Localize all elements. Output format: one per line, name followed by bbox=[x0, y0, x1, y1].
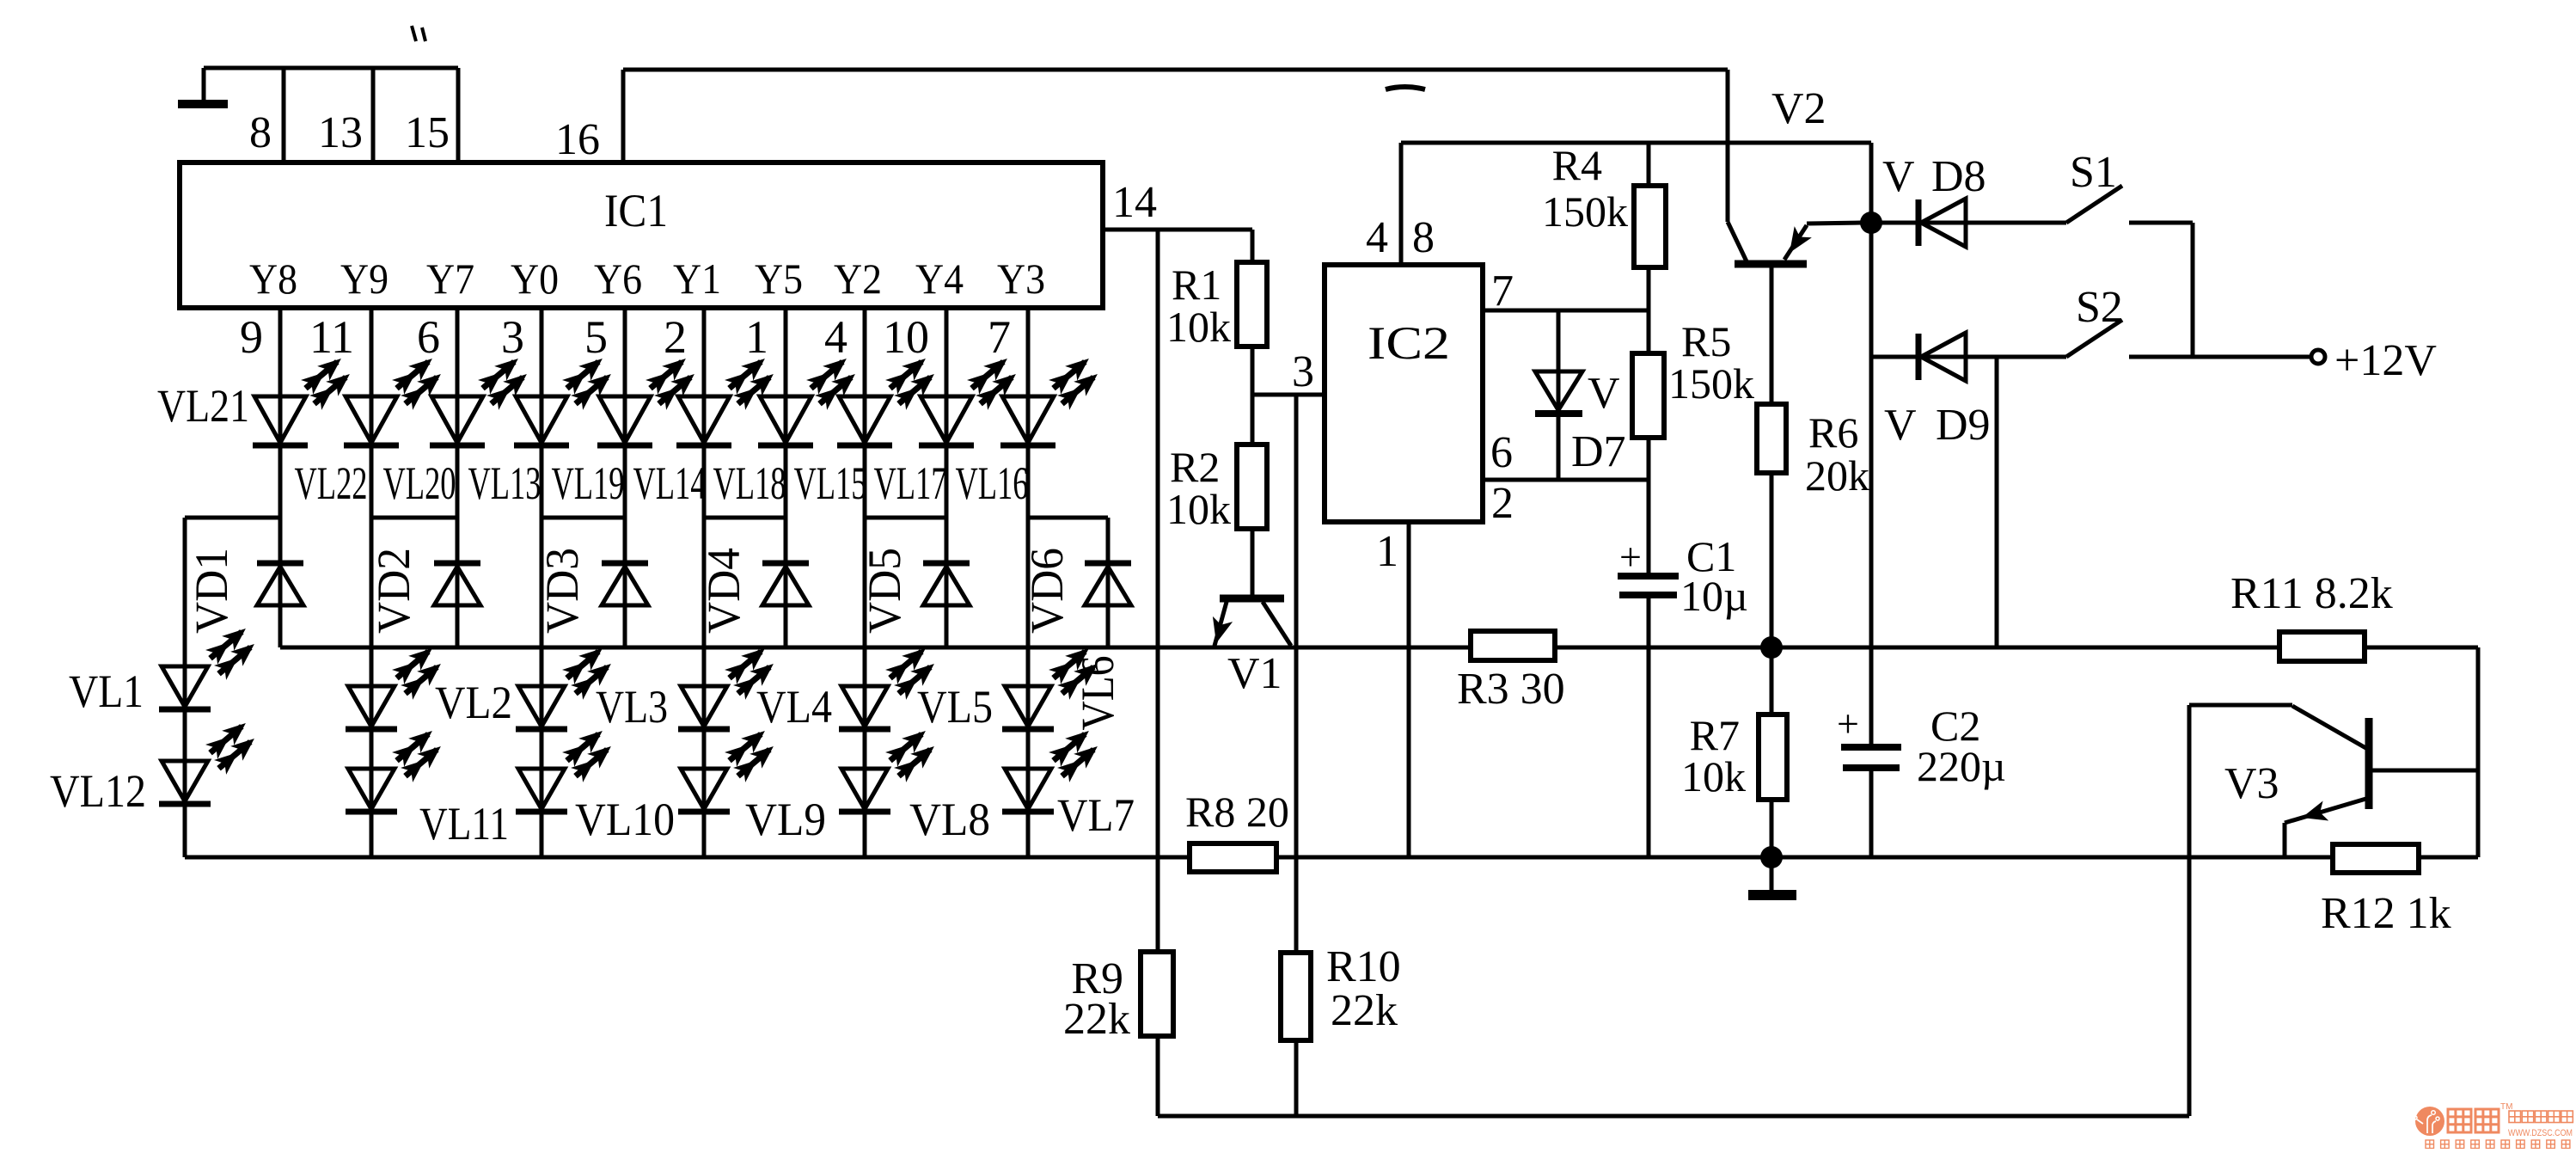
svg-text:VL16: VL16 bbox=[956, 457, 1029, 509]
svg-text:V: V bbox=[1882, 152, 1915, 201]
LED VL16 bbox=[1000, 352, 1104, 445]
ground (R7) bbox=[1748, 857, 1796, 895]
svg-text:10: 10 bbox=[883, 311, 929, 363]
IC1 pin 11 label bbox=[309, 311, 354, 363]
svg-text:10k: 10k bbox=[1166, 485, 1231, 533]
IC1 pin 10 label bbox=[883, 311, 929, 363]
svg-text:VL20: VL20 bbox=[383, 457, 456, 509]
svg-text:VL8: VL8 bbox=[909, 794, 990, 845]
wire pin3 bbox=[1252, 393, 1325, 397]
diode VD7 bbox=[1535, 371, 1582, 414]
LED VL17 bbox=[919, 352, 1022, 445]
resistor R6 bbox=[1757, 404, 1869, 500]
IC1 output label Y2 bbox=[834, 255, 882, 303]
node V2 emitter junction bbox=[1860, 212, 1882, 234]
switch S1 bbox=[2066, 148, 2122, 223]
wire pin3 to R10 bbox=[1294, 395, 1299, 1116]
LED VL19 bbox=[597, 352, 701, 445]
wire pin14 to R9 bbox=[1156, 230, 1160, 1042]
svg-text:3: 3 bbox=[501, 311, 524, 363]
node 3 label bbox=[1292, 347, 1314, 396]
svg-text:D8: D8 bbox=[1931, 152, 1986, 201]
svg-text:7: 7 bbox=[1491, 267, 1514, 316]
IC2 pin 8 label bbox=[1412, 213, 1435, 262]
svg-text:R12 1k: R12 1k bbox=[2321, 889, 2451, 938]
LED VL12 bbox=[159, 716, 260, 804]
LED VL3 bbox=[516, 641, 617, 729]
node R6 bus junction bbox=[1760, 636, 1783, 659]
wire VD4 box top bbox=[704, 516, 786, 520]
wire bottom net R9 R10 V3 bbox=[1158, 1042, 2189, 1116]
svg-text:15: 15 bbox=[405, 108, 450, 157]
wire pin 15 divider bbox=[371, 68, 376, 163]
IC1 output label Y9 bbox=[340, 255, 389, 303]
svg-text:7: 7 bbox=[988, 311, 1011, 363]
IC1 pin 1 label bbox=[745, 311, 768, 363]
svg-text:VL4: VL4 bbox=[756, 681, 832, 733]
svg-text:R8 20: R8 20 bbox=[1185, 788, 1289, 836]
svg-text:4: 4 bbox=[824, 311, 847, 363]
LED VL13 bbox=[514, 352, 617, 445]
IC2 pin 1 label bbox=[1376, 527, 1398, 576]
svg-text:Y2: Y2 bbox=[834, 255, 882, 303]
IC1 pin 3 label bbox=[501, 311, 524, 363]
LED VL14 label bbox=[633, 457, 707, 509]
svg-text:6: 6 bbox=[417, 311, 440, 363]
wire pin 13 divider bbox=[282, 68, 286, 163]
svg-text:R4: R4 bbox=[1552, 141, 1602, 189]
svg-text:Y7: Y7 bbox=[426, 255, 474, 303]
LED VL2 bbox=[346, 641, 447, 729]
LED VL4 label bbox=[756, 681, 832, 733]
svg-text:VL18: VL18 bbox=[713, 457, 786, 509]
svg-text:22k: 22k bbox=[1331, 986, 1398, 1035]
wire supply bus bbox=[280, 646, 2478, 650]
IC2 bbox=[1325, 265, 1483, 522]
diode VD5 bbox=[923, 563, 970, 605]
svg-text:13: 13 bbox=[318, 108, 363, 157]
VD6 label bbox=[1021, 548, 1073, 634]
svg-text:20k: 20k bbox=[1805, 451, 1869, 500]
wire IC1 pin 14 bbox=[1103, 228, 1252, 232]
IC1 output label Y8 bbox=[249, 255, 297, 303]
IC1 output label Y6 bbox=[594, 255, 642, 303]
diode VD9 bbox=[1918, 333, 1966, 381]
svg-text:1: 1 bbox=[745, 311, 768, 363]
wire V3 emitter to rail bbox=[2283, 823, 2287, 857]
svg-text:+12V: +12V bbox=[2334, 336, 2437, 385]
IC1 pin 7 label bbox=[988, 311, 1011, 363]
VD8 label bbox=[1882, 152, 1986, 201]
svg-text:D9: D9 bbox=[1936, 401, 1991, 450]
svg-text:R6: R6 bbox=[1808, 408, 1858, 457]
wire IC2 pin 7 bbox=[1483, 309, 1649, 313]
+12V terminal bbox=[2311, 336, 2437, 385]
wire IC2 pin1 bbox=[1407, 522, 1411, 857]
wire IC1 column 7 bbox=[784, 308, 788, 647]
LED VL11 bbox=[346, 724, 447, 812]
svg-text:R11 8.2k: R11 8.2k bbox=[2230, 569, 2393, 618]
pin 15 label bbox=[405, 108, 450, 157]
svg-text:9: 9 bbox=[240, 311, 263, 363]
svg-text:IC1: IC1 bbox=[604, 185, 668, 236]
VD1 label bbox=[186, 548, 237, 634]
LED VL15 label bbox=[794, 457, 867, 509]
svg-text:+: + bbox=[1619, 535, 1642, 579]
watermark title bbox=[2448, 1102, 2573, 1138]
wire VD2 box top bbox=[371, 516, 457, 520]
svg-text:Y1: Y1 bbox=[673, 255, 721, 303]
VD5 label bbox=[859, 548, 910, 634]
wire V3 collector bbox=[2189, 705, 2292, 1116]
IC1 output label Y4 bbox=[915, 255, 964, 303]
svg-text:2: 2 bbox=[1491, 479, 1514, 528]
resistor R5 bbox=[1632, 317, 1754, 438]
svg-text:Y4: Y4 bbox=[915, 255, 964, 303]
LED VL7 label bbox=[1057, 789, 1135, 841]
LED VL15 bbox=[837, 352, 940, 445]
svg-text:VL14: VL14 bbox=[633, 457, 707, 509]
resistor R4 bbox=[1542, 141, 1666, 267]
LED VL22 label bbox=[295, 457, 368, 509]
LED VL6 label bbox=[1072, 656, 1123, 731]
svg-text:5: 5 bbox=[584, 311, 608, 363]
diode VD8 bbox=[1918, 199, 1966, 247]
svg-text:R10: R10 bbox=[1326, 942, 1401, 991]
wire R1 R2 string bbox=[1251, 230, 1255, 598]
IC2 pin 2 label bbox=[1491, 479, 1514, 528]
LED VL16 label bbox=[956, 457, 1029, 509]
pin 16 label bbox=[555, 115, 600, 164]
svg-text:150k: 150k bbox=[1542, 187, 1628, 236]
wire IC2 pins 6 2 bbox=[1483, 478, 1649, 482]
wire IC1 column 5 bbox=[623, 308, 627, 647]
wire IC1 column 1 bbox=[278, 308, 283, 647]
svg-text:VL6: VL6 bbox=[1072, 656, 1123, 731]
svg-text:VD5: VD5 bbox=[859, 548, 910, 634]
LED VL8 label bbox=[909, 794, 990, 845]
svg-text:VL5: VL5 bbox=[917, 681, 993, 733]
LED VL18 bbox=[758, 352, 861, 445]
resistor R8 bbox=[1185, 788, 1289, 872]
LED VL7 bbox=[1002, 724, 1104, 812]
VD7 label bbox=[1571, 369, 1626, 476]
LED VL1 bbox=[159, 622, 260, 709]
LED VL4 bbox=[678, 641, 780, 729]
IC1 pin 14 label bbox=[1112, 178, 1157, 227]
LED VL5 label bbox=[917, 681, 993, 733]
svg-text:WWW.DZSC.COM: WWW.DZSC.COM bbox=[2508, 1128, 2573, 1138]
svg-text:VL19: VL19 bbox=[552, 457, 625, 509]
svg-text:6: 6 bbox=[1490, 428, 1513, 477]
LED VL8 bbox=[839, 724, 940, 812]
svg-text:R5: R5 bbox=[1681, 317, 1731, 365]
svg-text:14: 14 bbox=[1112, 178, 1157, 227]
wire VD1 box top bbox=[185, 516, 280, 520]
svg-text:Y9: Y9 bbox=[340, 255, 389, 303]
watermark slogan bbox=[2426, 1140, 2570, 1149]
wire ground rail bbox=[185, 856, 2478, 860]
wire IC2 pins 4 8 bbox=[1401, 143, 1871, 265]
wire pin header right bbox=[456, 68, 461, 163]
IC1 pin 9 label bbox=[240, 311, 263, 363]
wire D8 line bbox=[1871, 221, 2066, 225]
LED VL13 label bbox=[468, 457, 542, 509]
diode VD1 bbox=[257, 563, 303, 605]
svg-text:R1: R1 bbox=[1172, 261, 1221, 309]
IC1 output label Y5 bbox=[755, 255, 803, 303]
wire S2 to +12V terminal bbox=[2129, 355, 2311, 359]
svg-text:2: 2 bbox=[664, 311, 687, 363]
ground (IC1 pin 8) bbox=[178, 68, 228, 104]
svg-text:8: 8 bbox=[1412, 213, 1435, 262]
IC1 pin 5 label bbox=[584, 311, 608, 363]
svg-text:Y6: Y6 bbox=[594, 255, 642, 303]
svg-text:IC2: IC2 bbox=[1368, 317, 1450, 369]
svg-text:VD3: VD3 bbox=[536, 548, 588, 634]
IC1 output label Y1 bbox=[673, 255, 721, 303]
svg-text:1: 1 bbox=[1376, 527, 1398, 576]
wire V2 base to R6 bbox=[1770, 267, 1774, 404]
wire IC1 column 6 bbox=[702, 308, 707, 857]
wire pin 16 to V2 collector bbox=[623, 70, 1728, 222]
svg-text:VL2: VL2 bbox=[435, 677, 512, 728]
svg-text:220µ: 220µ bbox=[1917, 742, 2006, 790]
svg-text:4: 4 bbox=[1366, 213, 1388, 262]
svg-text:VL11: VL11 bbox=[419, 798, 509, 849]
LED VL2 label bbox=[435, 677, 512, 728]
LED VL14 bbox=[676, 352, 780, 445]
VD3 label bbox=[536, 548, 588, 634]
LED VL3 label bbox=[596, 681, 668, 733]
wire IC1 column 8 bbox=[863, 308, 867, 857]
wire R11 to V3 base bbox=[2476, 647, 2481, 857]
capacitor C1 bbox=[1618, 532, 1748, 620]
IC1 pin 4 label bbox=[824, 311, 847, 363]
resistor R7 bbox=[1681, 647, 1787, 857]
svg-text:Y0: Y0 bbox=[511, 255, 559, 303]
svg-text:Y3: Y3 bbox=[997, 255, 1045, 303]
wire S1 to +12V corner bbox=[2129, 223, 2193, 357]
wire IC1 column 2 bbox=[370, 308, 374, 857]
VD4 label bbox=[698, 548, 750, 634]
wire R6 to bus bbox=[1770, 473, 1774, 647]
wire supply feed to bus bbox=[1995, 357, 1999, 647]
svg-text:VD6: VD6 bbox=[1021, 548, 1073, 634]
svg-text:VL3: VL3 bbox=[596, 681, 668, 733]
wire V2 emitter node vertical bbox=[1869, 143, 1874, 223]
svg-text:VD2: VD2 bbox=[368, 548, 419, 634]
VD9 label bbox=[1884, 401, 1991, 450]
svg-text:S1: S1 bbox=[2070, 148, 2117, 197]
IC1 bbox=[180, 163, 1103, 308]
IC1 pin 6 label bbox=[417, 311, 440, 363]
svg-text:3: 3 bbox=[1292, 347, 1314, 396]
switch S2 bbox=[2066, 283, 2123, 357]
svg-text:VL22: VL22 bbox=[295, 457, 368, 509]
LED VL12 label bbox=[50, 765, 146, 817]
IC2 pin 7 label bbox=[1491, 267, 1514, 316]
wire VD1 left stub bbox=[183, 518, 187, 857]
svg-text:VL10: VL10 bbox=[575, 794, 675, 845]
VD2 label bbox=[368, 548, 419, 634]
wire VD7 bbox=[1557, 310, 1561, 480]
LED VL19 label bbox=[552, 457, 625, 509]
IC2 pin 6 label bbox=[1490, 428, 1513, 477]
svg-text:150k: 150k bbox=[1668, 359, 1754, 408]
wire R4 R5 C1 string bbox=[1647, 143, 1651, 857]
LED VL21 label bbox=[157, 380, 249, 432]
resistor R9 bbox=[1063, 952, 1173, 1044]
svg-text:R3 30: R3 30 bbox=[1457, 665, 1565, 714]
LED VL21 bbox=[253, 352, 356, 445]
wire IC1 column 4 bbox=[540, 308, 544, 857]
transistor V1 bbox=[1206, 598, 1291, 698]
LED VL17 label bbox=[874, 457, 947, 509]
diode VD3 bbox=[602, 563, 648, 605]
svg-text:VL12: VL12 bbox=[50, 765, 146, 817]
resistor R2 bbox=[1166, 443, 1267, 533]
svg-text:16: 16 bbox=[555, 115, 600, 164]
LED VL20 label bbox=[383, 457, 456, 509]
IC2 pin 4 label bbox=[1366, 213, 1388, 262]
svg-text:S2: S2 bbox=[2076, 283, 2123, 332]
svg-text:VD1: VD1 bbox=[186, 548, 237, 634]
capacitor C2 bbox=[1837, 702, 2006, 790]
pin 13 label bbox=[318, 108, 363, 157]
svg-text:VL13: VL13 bbox=[468, 457, 542, 509]
resistor R3 bbox=[1457, 631, 1565, 714]
svg-text:8: 8 bbox=[249, 108, 272, 157]
transistor V3 bbox=[2224, 706, 2478, 828]
svg-text:V1: V1 bbox=[1227, 649, 1282, 698]
IC1 output label Y3 bbox=[997, 255, 1045, 303]
wire IC1 column 9 bbox=[945, 308, 949, 647]
resistor R1 bbox=[1166, 261, 1267, 351]
LED VL1 label bbox=[69, 665, 144, 717]
watermark logo bbox=[2414, 1107, 2444, 1136]
svg-text:VL1: VL1 bbox=[69, 665, 144, 717]
svg-text:VL21: VL21 bbox=[157, 380, 249, 432]
svg-text:VD4: VD4 bbox=[698, 548, 750, 634]
wire VD6 right stub bbox=[1106, 518, 1111, 647]
resistor R11 bbox=[2230, 569, 2393, 661]
svg-text:11: 11 bbox=[309, 311, 354, 363]
svg-text:10k: 10k bbox=[1166, 303, 1231, 351]
speck marks bbox=[412, 26, 1425, 89]
wire VD6 box top bbox=[1028, 516, 1108, 520]
wire IC1 column 10 bbox=[1026, 308, 1031, 857]
svg-text:R2: R2 bbox=[1170, 443, 1220, 491]
LED VL10 bbox=[516, 724, 617, 812]
wire pin header top bbox=[204, 66, 458, 71]
LED VL11 label bbox=[419, 798, 509, 849]
svg-text:V2: V2 bbox=[1771, 84, 1826, 133]
LED VL9 bbox=[678, 724, 780, 812]
svg-text:10µ: 10µ bbox=[1680, 572, 1748, 620]
diode VD2 bbox=[434, 563, 480, 605]
svg-text:V: V bbox=[1884, 401, 1917, 450]
svg-text:VL15: VL15 bbox=[794, 457, 867, 509]
LED VL5 bbox=[839, 641, 940, 729]
transistor V2 bbox=[1728, 84, 1861, 264]
wire VD3 box top bbox=[542, 516, 625, 520]
LED VL6 bbox=[1002, 641, 1104, 729]
LED VL10 label bbox=[575, 794, 675, 845]
IC1 output label Y7 bbox=[426, 255, 474, 303]
resistor R12 bbox=[2321, 844, 2451, 938]
svg-text:Y8: Y8 bbox=[249, 255, 297, 303]
IC1 output label Y0 bbox=[511, 255, 559, 303]
LED VL20 bbox=[430, 352, 533, 445]
wire C2 vertical bbox=[1869, 223, 1874, 857]
svg-text:+: + bbox=[1837, 702, 1859, 745]
wire VD5 box top bbox=[865, 516, 946, 520]
svg-text:22k: 22k bbox=[1063, 995, 1130, 1044]
svg-text:Y5: Y5 bbox=[755, 255, 803, 303]
diode VD6 bbox=[1085, 563, 1131, 605]
LED VL9 label bbox=[745, 794, 826, 845]
svg-text:10k: 10k bbox=[1681, 752, 1746, 800]
wire IC1 column 3 bbox=[456, 308, 460, 647]
diode VD4 bbox=[762, 563, 809, 605]
LED VL18 label bbox=[713, 457, 786, 509]
node R7 rail junction bbox=[1760, 846, 1783, 868]
wire D9 line bbox=[1871, 355, 2066, 359]
svg-text:V: V bbox=[1588, 369, 1620, 418]
svg-text:VL7: VL7 bbox=[1057, 789, 1135, 841]
svg-text:D7: D7 bbox=[1571, 427, 1626, 476]
svg-text:VL9: VL9 bbox=[745, 794, 826, 845]
pin 8 label bbox=[249, 108, 272, 157]
resistor R10 bbox=[1281, 942, 1401, 1040]
svg-text:V3: V3 bbox=[2224, 759, 2279, 808]
LED VL22 bbox=[344, 352, 447, 445]
IC1 pin 2 label bbox=[664, 311, 687, 363]
svg-text:VL17: VL17 bbox=[874, 457, 947, 509]
